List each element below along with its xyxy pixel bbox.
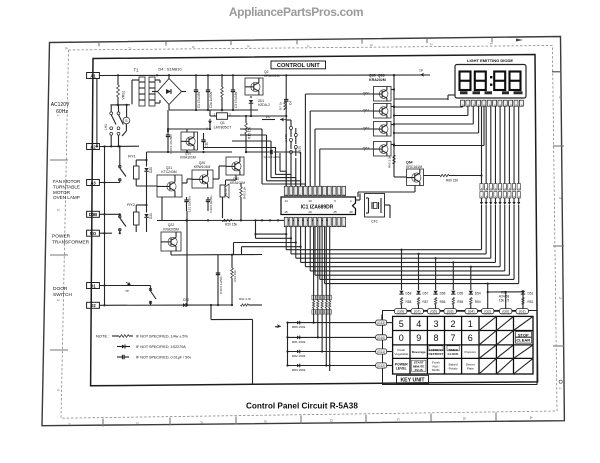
wire R40 down bbox=[240, 197, 242, 220]
svg-text:P: P bbox=[299, 193, 303, 195]
key matrix grid bbox=[393, 316, 533, 374]
switch LH1 contact 2 bbox=[118, 105, 120, 112]
terminal A2 bbox=[87, 144, 100, 150]
wire rectified rail bbox=[169, 109, 258, 111]
wire door TP bbox=[105, 284, 151, 286]
svg-text:NOTE :: NOTE : bbox=[96, 334, 109, 339]
svg-text:R58: R58 bbox=[406, 300, 412, 304]
svg-text:6: 6 bbox=[191, 46, 195, 48]
resistor R7 1k bbox=[284, 101, 286, 110]
frame tick mark right middle bbox=[552, 71, 560, 73]
svg-text:3: 3 bbox=[369, 44, 373, 46]
svg-text:14: 14 bbox=[284, 199, 288, 203]
bridge bottom lead bbox=[168, 105, 170, 111]
wire G1 riser bbox=[521, 305, 523, 309]
LED indicator column bbox=[290, 127, 293, 130]
relay RY2 contact bbox=[119, 214, 121, 218]
svg-text:P: P bbox=[289, 224, 293, 226]
svg-text:OVEN LAMP: OVEN LAMP bbox=[53, 195, 80, 200]
svg-text:(G12): (G12) bbox=[377, 364, 385, 368]
wire NO feed bbox=[99, 232, 112, 234]
svg-text:R57: R57 bbox=[423, 300, 429, 304]
svg-text:KRA101M: KRA101M bbox=[180, 156, 196, 160]
svg-text:15: 15 bbox=[284, 210, 288, 214]
svg-text:VRS1: VRS1 bbox=[122, 90, 126, 99]
svg-text:C3 47u/16v: C3 47u/16v bbox=[234, 91, 238, 108]
svg-text:C4: C4 bbox=[289, 101, 293, 105]
svg-text:7: 7 bbox=[451, 333, 456, 343]
svg-text:R82 150k: R82 150k bbox=[292, 354, 306, 358]
svg-text:Muffin: Muffin bbox=[432, 368, 440, 372]
wire header links bbox=[407, 310, 411, 312]
svg-text:TURNTABLE: TURNTABLE bbox=[53, 184, 80, 189]
svg-text:KRA101M: KRA101M bbox=[230, 181, 245, 185]
svg-text:TRANSFORMER: TRANSFORMER bbox=[52, 240, 90, 246]
svg-text:A3: A3 bbox=[90, 180, 96, 185]
svg-text:SWITCH: SWITCH bbox=[53, 292, 72, 298]
svg-text:LM7805CT: LM7805CT bbox=[214, 126, 233, 130]
svg-text:6: 6 bbox=[468, 333, 473, 343]
svg-text:4: 4 bbox=[306, 45, 310, 47]
diodes on row feeds bbox=[297, 321, 300, 325]
capacitor C11 bbox=[201, 139, 205, 141]
svg-text:2: 2 bbox=[429, 43, 433, 45]
capacitor C30 0.1u/50v bbox=[216, 272, 220, 274]
transistor Q62 bbox=[374, 122, 392, 137]
svg-text:1: 1 bbox=[489, 43, 493, 45]
diode D58 bbox=[399, 291, 403, 294]
svg-text:LH1: LH1 bbox=[104, 124, 108, 130]
seven segment digits 88:88 bbox=[460, 72, 471, 91]
svg-text:R80 150k: R80 150k bbox=[292, 325, 306, 329]
svg-text:LIGHT EMITTING DIODE: LIGHT EMITTING DIODE bbox=[467, 58, 513, 63]
svg-text:P: P bbox=[284, 193, 288, 195]
wire row feed left vertical bbox=[287, 323, 289, 366]
resistor R56 bbox=[434, 298, 436, 305]
resistor R20 15k bbox=[222, 219, 232, 221]
svg-text:R33 10k: R33 10k bbox=[233, 270, 237, 282]
resistor R60 150k pullup bbox=[313, 295, 315, 301]
svg-text:T1: T1 bbox=[134, 68, 140, 73]
vertical bus x187 bbox=[186, 152, 188, 305]
resistor R64 150k pullup bbox=[329, 295, 331, 301]
wire CF1 to IC bbox=[356, 199, 361, 201]
svg-text:Control Panel Circuit R-5A38: Control Panel Circuit R-5A38 bbox=[246, 402, 358, 411]
transistor Q40 KRA101M bbox=[226, 157, 244, 175]
svg-text:KRC161M: KRC161M bbox=[406, 165, 422, 169]
svg-text:R54: R54 bbox=[475, 300, 481, 304]
resistor R2 bbox=[221, 87, 224, 97]
transistor Q10 KRA101M bbox=[181, 132, 198, 150]
vertical rail x394 bbox=[393, 74, 395, 169]
voltage regulator Q1 LM7805CT bbox=[217, 113, 228, 120]
svg-text:CLEAR: CLEAR bbox=[516, 338, 530, 343]
wire IC pins going left bbox=[256, 233, 287, 235]
svg-text:RY1: RY1 bbox=[128, 154, 136, 159]
svg-text:KEY UNIT: KEY UNIT bbox=[400, 378, 425, 384]
svg-text:P: P bbox=[318, 224, 322, 226]
svg-text:HZDA-2: HZDA-2 bbox=[258, 103, 270, 107]
wire horizontal feeds into bundle bbox=[240, 128, 262, 130]
bridge top lead bbox=[168, 75, 170, 78]
svg-text:P: P bbox=[318, 193, 322, 195]
svg-text:Q1: Q1 bbox=[220, 121, 225, 125]
varistor VRS1 bbox=[117, 75, 119, 85]
svg-text:FAN MOTOR: FAN MOTOR bbox=[53, 179, 81, 184]
wire Q64 collector right with resistor R60 bbox=[424, 175, 441, 177]
svg-text:15k x 5: 15k x 5 bbox=[499, 299, 510, 303]
svg-text:D57: D57 bbox=[423, 292, 429, 296]
wire A1 junction dots bbox=[117, 74, 119, 76]
svg-text:D55: D55 bbox=[457, 292, 463, 296]
svg-text:P: P bbox=[323, 193, 327, 195]
svg-text:(LED): (LED) bbox=[298, 146, 302, 154]
LED pin row bbox=[461, 100, 465, 106]
wire LED box left to cascade bbox=[448, 94, 455, 96]
wire regulator output bbox=[228, 115, 241, 117]
svg-text:D1: D1 bbox=[90, 283, 96, 288]
svg-text:R60 150: R60 150 bbox=[446, 179, 458, 183]
svg-text:D4 : S1NB10: D4 : S1NB10 bbox=[158, 67, 182, 72]
svg-text:C1 47u/35v: C1 47u/35v bbox=[197, 91, 201, 108]
svg-text:TP: TP bbox=[125, 289, 129, 293]
svg-text:CF1: CF1 bbox=[371, 220, 378, 224]
svg-text:(G11): (G11) bbox=[377, 350, 385, 354]
wire from A2 to transformer bbox=[99, 145, 139, 147]
outer drawing frame bbox=[42, 37, 564, 426]
svg-text:2: 2 bbox=[56, 209, 60, 211]
transistor Q2 KRA101M bbox=[245, 78, 263, 95]
resistor R55 bbox=[452, 298, 454, 305]
svg-text:3: 3 bbox=[433, 319, 438, 329]
wire A1 column down bbox=[96, 79, 98, 146]
wire Q60-63 collector to common bus bbox=[391, 89, 394, 91]
svg-text:(G13): (G13) bbox=[377, 321, 385, 325]
svg-text:C6 0.1u/50v: C6 0.1u/50v bbox=[264, 155, 281, 159]
capacitor C40 0.1u/50v bbox=[206, 199, 210, 201]
svg-text:CLOCK: CLOCK bbox=[448, 352, 460, 356]
svg-text:P: P bbox=[289, 193, 293, 195]
wire lower control rail bbox=[104, 211, 106, 213]
wire relay rails bbox=[136, 159, 146, 161]
terminal D3B bbox=[87, 211, 100, 217]
svg-text:R31 4.7k: R31 4.7k bbox=[239, 297, 252, 301]
svg-text:A1: A1 bbox=[90, 73, 96, 78]
svg-text:Popcorn: Popcorn bbox=[465, 350, 477, 354]
svg-text:9: 9 bbox=[416, 333, 421, 343]
diode D56 bbox=[433, 291, 437, 294]
svg-text:Q22: Q22 bbox=[168, 223, 175, 227]
diode D20 bbox=[144, 168, 148, 171]
key unit label box bbox=[397, 375, 429, 383]
LED indicator column 2 bbox=[294, 134, 297, 137]
bridge left lead bbox=[152, 91, 158, 93]
wire digit common cascade bbox=[447, 99, 449, 100]
LED mode indicator boxes bbox=[460, 91, 468, 94]
svg-text:KRA202M: KRA202M bbox=[369, 78, 386, 82]
svg-text:(G5): (G5) bbox=[430, 310, 437, 314]
diode D30 bbox=[183, 303, 186, 307]
capacitor C2a 1u/50v bbox=[206, 89, 210, 91]
svg-text:KRA205M: KRA205M bbox=[163, 228, 179, 232]
bridge rectifier internal diode bbox=[166, 89, 171, 94]
terminal A1 bbox=[87, 73, 100, 79]
svg-text:CONTROL UNIT: CONTROL UNIT bbox=[277, 63, 320, 69]
wire Q40 to SP40 bbox=[235, 175, 237, 180]
svg-text:25: 25 bbox=[333, 210, 337, 214]
test point A arrow bbox=[208, 119, 212, 125]
svg-text:R56: R56 bbox=[440, 300, 446, 304]
wire mid node rail bbox=[218, 254, 262, 256]
svg-text:P: P bbox=[342, 193, 346, 195]
transformer T1 secondary bbox=[149, 77, 155, 106]
svg-text:D56: D56 bbox=[440, 292, 446, 296]
svg-text:C30 0.1u/50v: C30 0.1u/50v bbox=[219, 276, 223, 294]
ceramic resonator CF1 bbox=[365, 194, 385, 218]
svg-text:C40 0.1u/50v: C40 0.1u/50v bbox=[209, 195, 213, 213]
svg-text:C10 0.47u/50v: C10 0.47u/50v bbox=[169, 134, 173, 154]
resistor R10 15k bbox=[245, 123, 248, 134]
wire bundle from power to IC top pins bbox=[261, 129, 263, 184]
svg-text:R40 2.2k: R40 2.2k bbox=[243, 187, 247, 200]
svg-text:P: P bbox=[294, 224, 298, 226]
terminal NO bbox=[87, 230, 100, 236]
resistor R63 150k pullup bbox=[325, 295, 327, 301]
wire VC arrow bbox=[262, 119, 275, 121]
transistor Q63 bbox=[374, 142, 392, 157]
wire led column tops bbox=[290, 120, 292, 127]
relay RY1 coil bbox=[134, 166, 140, 179]
svg-text:2: 2 bbox=[558, 297, 562, 299]
wire D1 feed bbox=[99, 285, 151, 287]
key stop clear bbox=[516, 332, 532, 344]
frame zone tick marks top bbox=[98, 42, 100, 46]
transformer connecting wires bbox=[132, 79, 139, 81]
svg-text:IF NOT SPECIFIED, 1S2270A: IF NOT SPECIFIED, 1S2270A bbox=[136, 345, 186, 349]
wire mid rail under regulator bbox=[147, 151, 233, 153]
resistor R40 2.2k bbox=[240, 187, 243, 197]
svg-text:2: 2 bbox=[451, 319, 456, 329]
wire A3 feed bbox=[99, 182, 120, 184]
frame arrow mark top right bbox=[516, 39, 523, 42]
row feed boxes G13 G10 G11 G12 bbox=[376, 320, 387, 325]
svg-text:P: P bbox=[308, 193, 312, 195]
svg-text:P: P bbox=[294, 193, 298, 195]
svg-text:D30: D30 bbox=[183, 298, 189, 302]
wire buzzer down bbox=[224, 197, 226, 220]
svg-text:AppliancePartsPros.com: AppliancePartsPros.com bbox=[229, 5, 363, 19]
svg-text:8: 8 bbox=[433, 333, 438, 343]
svg-text:(G1): (G1) bbox=[519, 310, 526, 314]
main schematic border bbox=[91, 55, 538, 386]
wire bottom rail to caps bbox=[187, 304, 232, 306]
key matrix diagonal cells bbox=[479, 316, 496, 330]
svg-text:D21: D21 bbox=[149, 213, 153, 219]
svg-text:H: H bbox=[67, 423, 71, 426]
svg-text:5: 5 bbox=[246, 45, 250, 47]
diode D55 bbox=[451, 291, 455, 294]
diode D21 bbox=[144, 214, 148, 217]
svg-text:P: P bbox=[313, 193, 317, 195]
svg-text:MOTOR: MOTOR bbox=[53, 190, 71, 195]
IC1 IZA689DR body bbox=[281, 197, 356, 215]
svg-text:Potato: Potato bbox=[449, 366, 458, 370]
diode D57 bbox=[416, 291, 420, 294]
svg-text:P: P bbox=[323, 224, 327, 226]
capacitor C6 0.1u/50v bbox=[246, 151, 270, 153]
svg-text:1: 1 bbox=[468, 319, 473, 329]
svg-text:P: P bbox=[332, 224, 336, 226]
resistor R58 bbox=[400, 298, 402, 305]
svg-text:P: P bbox=[308, 224, 312, 226]
resistor R61 150k pullup bbox=[317, 295, 319, 301]
resistor R51 bbox=[522, 298, 524, 305]
svg-text:(G3): (G3) bbox=[447, 310, 454, 314]
resistor bundle R52-R59 row1 bbox=[480, 184, 483, 191]
svg-text:R7 1k: R7 1k bbox=[279, 102, 283, 111]
svg-text:Vegetable: Vegetable bbox=[394, 352, 408, 356]
wire G2 G0 drops bbox=[487, 284, 489, 309]
wire cascade lines bbox=[394, 98, 448, 100]
diode arrows on segment lines bbox=[481, 198, 483, 202]
svg-text:C2a 1u/50v: C2a 1u/50v bbox=[209, 91, 213, 108]
svg-text:AC120V: AC120V bbox=[51, 102, 70, 108]
wire Q20 to Q40 bbox=[213, 178, 219, 180]
wire G box riser bbox=[381, 315, 383, 321]
terminal D1 bbox=[87, 283, 100, 289]
terminal D2 bbox=[87, 302, 100, 308]
svg-text:C11: C11 bbox=[205, 142, 209, 148]
svg-text:P: P bbox=[304, 224, 308, 226]
wire key scan bus lines bbox=[286, 249, 481, 251]
wire Q64 emitter down bbox=[414, 186, 416, 193]
svg-text:R63 3.3k: R63 3.3k bbox=[388, 156, 392, 169]
svg-text:Plate: Plate bbox=[467, 366, 474, 370]
wire key column drops bbox=[401, 250, 403, 290]
door interlock switch bbox=[150, 286, 152, 292]
svg-text:P: P bbox=[337, 224, 341, 226]
wire c6 joins bbox=[300, 152, 302, 186]
svg-text:RY2: RY2 bbox=[127, 202, 135, 207]
svg-text:D20: D20 bbox=[149, 167, 153, 173]
wire Q60-63 base lines bbox=[305, 93, 373, 95]
svg-text:TP: TP bbox=[275, 325, 279, 329]
IC1 IZA689DR top pin row bbox=[284, 186, 288, 195]
diode D54 bbox=[469, 291, 473, 294]
svg-text:P: P bbox=[284, 224, 288, 226]
key unit container box bbox=[383, 311, 538, 385]
svg-text:60Hz: 60Hz bbox=[56, 109, 68, 115]
svg-text:(G9): (G9) bbox=[397, 310, 404, 314]
svg-text:IF NOT SPECIFIED, 1/4w ± 5%: IF NOT SPECIFIED, 1/4w ± 5% bbox=[136, 335, 188, 339]
svg-text:0: 0 bbox=[399, 333, 404, 343]
svg-text:D58: D58 bbox=[406, 292, 412, 296]
capacitor C3 47u/16v bbox=[231, 89, 235, 91]
resistor R63 3.3k label bbox=[393, 155, 396, 164]
svg-text:(G2): (G2) bbox=[484, 310, 491, 314]
resistor R62 150k pullup bbox=[321, 295, 323, 301]
svg-text:R55: R55 bbox=[457, 300, 463, 304]
svg-text:R51: R51 bbox=[528, 300, 534, 304]
svg-text:KTC243M: KTC243M bbox=[161, 170, 176, 174]
relay RY2 coil bbox=[134, 212, 140, 225]
svg-text:A2: A2 bbox=[90, 144, 96, 149]
relay RY1 contact bbox=[119, 160, 121, 168]
svg-text:D2: D2 bbox=[90, 303, 96, 308]
colon bbox=[490, 76, 492, 78]
svg-text:3: 3 bbox=[56, 299, 60, 301]
interlock monitor S bbox=[123, 117, 130, 124]
capacitor C4 bbox=[284, 99, 288, 101]
svg-text:10: 10 bbox=[308, 199, 312, 203]
svg-text:DOOR: DOOR bbox=[53, 286, 68, 292]
buzzer SP40 bbox=[220, 185, 225, 197]
svg-text:1: 1 bbox=[558, 387, 562, 389]
wire Q-section emitters to rail bbox=[161, 197, 163, 221]
wire regulator input bbox=[210, 115, 217, 117]
terminal A3 bbox=[87, 180, 100, 186]
svg-text:D3B: D3B bbox=[89, 212, 97, 217]
wire pullup tops continue bbox=[313, 286, 315, 295]
svg-text:20: 20 bbox=[308, 210, 312, 214]
wire row feed lines bbox=[288, 322, 376, 324]
svg-text:C: C bbox=[396, 418, 400, 421]
test point TP arrow top bbox=[420, 73, 426, 77]
svg-text:P: P bbox=[328, 224, 332, 226]
svg-text:P: P bbox=[313, 224, 317, 226]
svg-text:POWER: POWER bbox=[52, 234, 71, 240]
svg-text:(G4): (G4) bbox=[468, 310, 475, 314]
wire D51 column bbox=[522, 290, 524, 295]
resistor R33 10k bbox=[231, 268, 234, 278]
note capacitor symbol bbox=[122, 355, 124, 359]
wire staircase left drops bbox=[234, 242, 296, 244]
frame zone divider ticks bottom bbox=[102, 419, 104, 427]
transistor Q60 bbox=[374, 87, 392, 102]
bridge right lead bbox=[182, 91, 187, 93]
svg-text:R81 150k: R81 150k bbox=[292, 340, 306, 344]
svg-text:P: P bbox=[299, 224, 303, 226]
svg-text:P: P bbox=[342, 224, 346, 226]
svg-text:IC1 IZA689DR: IC1 IZA689DR bbox=[301, 204, 334, 210]
zener ZD1 HZDA-2 bbox=[249, 100, 253, 103]
resistor R54 bbox=[470, 298, 472, 305]
svg-text:R83 150k: R83 150k bbox=[292, 368, 306, 372]
svg-text:Beverage: Beverage bbox=[412, 350, 426, 354]
wire D2 feed bbox=[99, 304, 187, 306]
wire D3B feed bbox=[99, 213, 120, 215]
bridge rectifier D4 diamond bbox=[158, 79, 182, 105]
svg-text:VC: VC bbox=[266, 115, 271, 119]
svg-text:P: P bbox=[337, 193, 341, 195]
svg-text:D51: D51 bbox=[528, 292, 534, 296]
svg-text:P: P bbox=[304, 193, 308, 195]
svg-text:NO: NO bbox=[90, 231, 97, 236]
frame zone divider ticks right bbox=[553, 145, 564, 147]
svg-text:KRW101M: KRW101M bbox=[194, 165, 211, 169]
vertical bus from A terminals bbox=[104, 147, 106, 306]
switch LH1 contact 1 bbox=[110, 105, 112, 112]
svg-text:LEVEL: LEVEL bbox=[396, 366, 407, 370]
wire top rail from A1 bbox=[99, 74, 430, 77]
svg-text:D54: D54 bbox=[475, 292, 481, 296]
svg-text:5: 5 bbox=[399, 319, 404, 329]
IC1 bottom pin row bbox=[284, 217, 288, 226]
note resistor symbol bbox=[112, 335, 119, 337]
svg-text:SP40: SP40 bbox=[224, 188, 228, 195]
svg-text:B: B bbox=[462, 417, 466, 420]
svg-text:4: 4 bbox=[558, 96, 562, 98]
